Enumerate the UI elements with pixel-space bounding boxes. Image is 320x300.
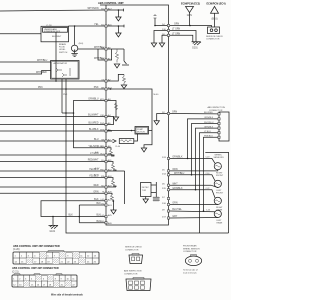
wheel sensors box: [205, 152, 228, 233]
svg-text:FRO: FRO: [100, 169, 104, 171]
wire ORN: [0, 191, 106, 193]
svg-text:male terminals: male terminals: [183, 271, 197, 274]
left rear sensor: [170, 209, 223, 224]
svg-text:FRONT/REAR: FRONT/REAR: [183, 245, 197, 248]
svg-text:BLU/WHT: BLU/WHT: [88, 115, 99, 117]
svg-text:(C-20): (C-20): [46, 25, 52, 27]
resistor box: [116, 134, 138, 148]
ABS control unit 26P connector legend: [13, 245, 60, 251]
svg-text:WHT/BLU: WHT/BLU: [37, 60, 48, 62]
svg-text:12: 12: [13, 285, 16, 287]
svg-text:ECM/PCM (EC3): ECM/PCM (EC3): [181, 3, 200, 6]
svg-text:(C-20): (C-20): [13, 249, 20, 251]
svg-text:GRN: GRN: [172, 203, 177, 205]
inspection bundle wire 3: [191, 122, 218, 176]
svg-text:C-18: C-18: [206, 157, 210, 159]
detector box: [141, 182, 157, 203]
wire WHT/RED to alternator: [0, 71, 51, 75]
inspection bundle wire 5: [200, 131, 218, 233]
svg-text:PNK: PNK: [94, 87, 99, 89]
svg-text:D9: D9: [162, 210, 166, 212]
svg-text:LT GRN: LT GRN: [172, 33, 181, 35]
wire RED/WHT: [0, 160, 106, 162]
svg-text:WHEEL: WHEEL: [215, 154, 223, 156]
wire WHT/BLU to alternator: [0, 60, 51, 62]
svg-text:MOTOR: MOTOR: [137, 132, 145, 134]
svg-text:GRN: GRN: [172, 112, 177, 114]
svg-text:SWITCH: SWITCH: [59, 52, 68, 54]
internal wire D2 to logic ground: [154, 114, 169, 125]
wire YEL/BLU 1: [0, 168, 106, 171]
internal wire A3 coil ground: [107, 101, 118, 122]
internal wire pin A17 to logic ground: [107, 9, 123, 21]
svg-text:A26: A26: [108, 222, 113, 225]
svg-text:D17: D17: [162, 217, 167, 219]
pump motor ground: [141, 131, 152, 153]
pin designator labels: [100, 8, 105, 223]
wire BLK with G101 ground branch: [41, 199, 106, 217]
svg-text:FRI: FRI: [101, 176, 104, 178]
svg-text:WHT/RED: WHT/RED: [36, 72, 47, 74]
svg-text:WHEEL SENSOR: WHEEL SENSOR: [183, 248, 200, 250]
svg-text:25: 25: [87, 262, 90, 264]
svg-text:PNK/BLU: PNK/BLU: [204, 136, 213, 138]
svg-text:3: 3: [25, 279, 27, 281]
svg-text:BLK: BLK: [69, 215, 74, 217]
wire BLK/RED inspection pin1: [170, 112, 218, 115]
svg-text:REAR: REAR: [217, 222, 223, 225]
svg-text:WHT/GRN: WHT/GRN: [88, 8, 99, 10]
svg-text:1: 1: [15, 256, 17, 258]
svg-text:26: 26: [94, 262, 97, 264]
svg-text:13: 13: [94, 256, 97, 258]
wire to fuse box: [0, 33, 41, 35]
svg-text:16: 16: [37, 285, 40, 287]
svg-text:CONNECTOR: CONNECTOR: [125, 249, 139, 251]
wire LT GRN to G201: [170, 29, 196, 42]
svg-text:8: 8: [55, 279, 57, 281]
left front sensor: [170, 173, 224, 194]
svg-text:BLU/RED: BLU/RED: [89, 123, 99, 125]
svg-text:WHT/BLU: WHT/BLU: [174, 173, 185, 175]
right rear sensor: [170, 188, 223, 211]
svg-text:18: 18: [41, 262, 44, 264]
ground G201: [192, 42, 202, 50]
svg-text:(C-21): (C-21): [12, 272, 19, 274]
svg-text:WHT/BLU: WHT/BLU: [204, 122, 214, 124]
svg-text:15: 15: [21, 262, 24, 264]
labels mid wires: [88, 115, 99, 142]
svg-text:BRAKE: BRAKE: [59, 43, 67, 46]
22P connector grid: [12, 274, 77, 287]
svg-text:GRN/BLK: GRN/BLK: [204, 126, 214, 128]
svg-text:BLU/YEL: BLU/YEL: [172, 209, 182, 211]
right edge pin labels: [162, 24, 167, 219]
internal wire D10 to logic ground: [151, 31, 168, 48]
svg-text:D7: D7: [162, 197, 166, 199]
svg-text:23: 23: [74, 262, 77, 264]
ABS inspection connector: [208, 106, 230, 141]
svg-text:ABS INSPECTION: ABS INSPECTION: [124, 270, 142, 273]
svg-text:CONNECTOR: CONNECTOR: [206, 39, 220, 41]
svg-text:1: 1: [13, 279, 15, 281]
right front sensor: [170, 157, 224, 178]
svg-text:Wire side of female terminals: Wire side of female terminals: [51, 294, 83, 297]
wire LT GRN/WHT: [0, 152, 106, 155]
ABS inspection connector legend icon: [124, 270, 151, 291]
svg-text:PNK: PNK: [38, 87, 43, 89]
ground G101: [49, 216, 59, 233]
svg-text:9: 9: [67, 256, 69, 258]
detector hatch ground: [153, 197, 160, 202]
svg-text:10: 10: [67, 279, 70, 281]
service check connector legend icon: [125, 247, 143, 264]
svg-text:GRN: GRN: [187, 15, 192, 17]
26P connector grid: [13, 251, 99, 264]
svg-text:D14: D14: [162, 173, 167, 175]
svg-text:RED/WHT: RED/WHT: [88, 160, 99, 162]
svg-text:11: 11: [72, 279, 75, 281]
alternator box: [51, 61, 79, 80]
svg-text:SERVICE CHECK: SERVICE CHECK: [125, 247, 143, 249]
wire BLU/WHT: [0, 116, 106, 118]
svg-text:CONNECTOR: CONNECTOR: [183, 251, 197, 253]
svg-text:ORN/BLK: ORN/BLK: [172, 157, 183, 159]
svg-text:6: 6: [43, 279, 45, 281]
svg-text:C-16: C-16: [206, 173, 210, 175]
internal wire A2 relay coil: [107, 74, 126, 88]
wire LT GRN lower to G201: [170, 33, 193, 41]
svg-text:DETEC: DETEC: [142, 187, 150, 189]
svg-text:GND: GND: [100, 221, 105, 223]
svg-text:20: 20: [61, 285, 64, 287]
svg-text:M-40: M-40: [154, 94, 160, 96]
wire GRN to ECM junction and service connector: [170, 24, 212, 27]
svg-text:ABS CONTROL UNIT 22P CONNECTOR: ABS CONTROL UNIT 22P CONNECTOR: [12, 267, 59, 270]
svg-text:15: 15: [31, 285, 34, 287]
internal wire A15 to logic ground: [107, 25, 124, 37]
svg-text:ORN: ORN: [93, 191, 98, 193]
wire step to pin GRN/BLU: [62, 99, 106, 114]
svg-text:D16: D16: [162, 203, 167, 205]
svg-text:BLK/WHT: BLK/WHT: [52, 36, 62, 38]
svg-text:PUMP: PUMP: [137, 129, 144, 131]
brake fluid level switch text: [59, 43, 68, 54]
wire BLU/RED: [0, 124, 106, 126]
svg-text:12: 12: [87, 256, 90, 258]
svg-text:22: 22: [72, 285, 75, 287]
svg-text:TOR: TOR: [142, 190, 147, 192]
internal wire D4 with stub: [154, 14, 169, 26]
alternator pin vertical long: [63, 79, 229, 233]
svg-text:7: 7: [54, 256, 56, 258]
svg-text:BLK: BLK: [94, 199, 99, 201]
wire YEL/BLU 2: [0, 175, 106, 178]
svg-text:YEL: YEL: [94, 24, 99, 26]
ABS control unit 22P connector legend: [12, 267, 59, 274]
svg-text:D6: D6: [162, 184, 166, 186]
wire A6 to pump motor: [107, 130, 152, 132]
svg-text:A25: A25: [108, 214, 113, 217]
svg-text:FRONT: FRONT: [216, 175, 224, 177]
fuse box (under-dash fuse/relay box): [41, 25, 69, 42]
svg-text:13: 13: [19, 285, 22, 287]
wire YEL from fuse to pin: [69, 24, 107, 45]
svg-text:GRN/BLU: GRN/BLU: [88, 99, 99, 101]
svg-text:RED: RED: [94, 185, 99, 187]
alternator pin vertical short: [61, 79, 63, 113]
left edge connector pins: [105, 9, 107, 224]
svg-text:GRN/BLK: GRN/BLK: [172, 188, 183, 190]
sensor wire connector tags: [206, 157, 210, 212]
inspection bundle wire 6: [203, 136, 218, 212]
svg-text:FLO: FLO: [101, 153, 105, 155]
indicator bulb / switch circle: [71, 43, 83, 52]
svg-text:ECM/PCM (EC4): ECM/PCM (EC4): [207, 3, 226, 6]
svg-text:WHT: WHT: [172, 183, 178, 185]
svg-text:6: 6: [47, 256, 49, 258]
svg-text:4: 4: [34, 256, 36, 258]
service check connector box: [206, 27, 224, 41]
svg-text:9: 9: [61, 279, 63, 281]
svg-text:LG2: LG2: [101, 215, 104, 217]
wire GRN/ORN: [0, 185, 106, 187]
front/rear wheel sensor connector legend icon: [183, 245, 202, 275]
svg-text:PNK: PNK: [63, 94, 68, 96]
svg-text:ALTERNATOR: ALTERNATOR: [54, 62, 68, 65]
wire A7 to resistor contact: [107, 139, 116, 143]
solenoid coils internal: [107, 148, 124, 214]
right edge connector pins: [167, 24, 169, 219]
ABS control unit box outline: [98, 1, 169, 225]
wire YEL/GRN from step: [73, 112, 106, 148]
wire BLK/WHT from fuse down: [52, 32, 62, 81]
wire PNK to pin: [0, 87, 106, 90]
ECM/PCM (EC4) connector triangle: [207, 3, 226, 28]
svg-text:BLK/RED: BLK/RED: [204, 112, 213, 114]
internal PNK wire to pump motor vertical: [107, 88, 159, 130]
wire WHT/BLU to pin (upper): [78, 47, 106, 49]
svg-text:21: 21: [61, 262, 64, 264]
inspection bundle wire 2: [187, 117, 218, 159]
wire WHT/GRN to pin A17: [0, 8, 106, 11]
svg-text:C-22: C-22: [206, 188, 210, 190]
inspection bundle wire 4: [195, 126, 218, 190]
svg-text:ORN/BLK: ORN/BLK: [204, 117, 214, 119]
svg-text:FRONT: FRONT: [216, 192, 224, 194]
svg-text:D13: D13: [162, 157, 167, 159]
left edge pin number labels: [108, 8, 113, 226]
svg-text:22: 22: [67, 262, 70, 264]
svg-text:CONNECTOR: CONNECTOR: [124, 273, 138, 275]
svg-text:2: 2: [19, 279, 21, 281]
svg-text:LG1: LG1: [101, 199, 104, 201]
svg-text:BLU: BLU: [94, 139, 99, 141]
svg-text:4: 4: [31, 279, 33, 281]
svg-text:IG2: IG2: [101, 24, 104, 26]
svg-text:PSW: PSW: [100, 123, 104, 125]
svg-text:18: 18: [49, 285, 52, 287]
svg-text:IG1: IG1: [101, 8, 104, 10]
svg-text:17: 17: [43, 285, 46, 287]
svg-text:FUSE/RELAY BOX: FUSE/RELAY BOX: [44, 30, 61, 33]
ground under switch: [71, 52, 77, 57]
svg-text:ABS CONTROL UNIT: ABS CONTROL UNIT: [98, 1, 124, 5]
svg-text:GRN: GRN: [174, 24, 179, 26]
svg-text:A13: A13: [108, 204, 113, 207]
svg-text:LT BLU: LT BLU: [204, 131, 211, 133]
svg-text:D5: D5: [162, 169, 166, 171]
internal stubs A4 A5: [107, 117, 113, 132]
svg-text:17: 17: [34, 262, 37, 264]
wire BLU/BLK: [0, 130, 106, 132]
svg-text:G201: G201: [192, 48, 198, 50]
svg-text:3: 3: [28, 256, 30, 258]
svg-text:C-23: C-23: [206, 209, 210, 211]
svg-text:11: 11: [80, 256, 83, 258]
svg-text:LT GRN: LT GRN: [172, 29, 181, 31]
wire BLK/YEL junction: [0, 80, 106, 82]
ECM/PCM (EC3) connector triangle: [181, 3, 200, 26]
svg-text:ORN: ORN: [172, 169, 177, 171]
svg-text:14: 14: [15, 262, 18, 264]
svg-text:(BLU): (BLU): [212, 19, 218, 21]
internal relay coil at pins A9/A1: [107, 49, 129, 68]
svg-text:D15: D15: [162, 188, 167, 190]
internal wire D8 to logic ground: [159, 35, 168, 47]
svg-text:G101: G101: [50, 231, 56, 233]
svg-text:ABS CONTROL UNIT 26P CONNECTOR: ABS CONTROL UNIT 26P CONNECTOR: [13, 245, 60, 248]
svg-text:2: 2: [21, 256, 23, 258]
wire BLU: [0, 140, 106, 142]
svg-text:BLU/BLK: BLU/BLK: [89, 129, 99, 131]
svg-text:(B-6): (B-6): [79, 43, 84, 45]
wire WHT/BLU to pin (lower): [94, 49, 106, 60]
inspection connector pins: [218, 113, 220, 139]
svg-text:19: 19: [47, 262, 50, 264]
svg-text:R-40: R-40: [116, 146, 121, 148]
pump motor box: [135, 127, 149, 135]
svg-text:Terminal side of: Terminal side of: [183, 269, 198, 272]
svg-text:ABS INSPECTION: ABS INSPECTION: [208, 106, 226, 109]
svg-text:SENSORS: SENSORS: [214, 157, 225, 159]
svg-text:GRY: GRY: [172, 216, 177, 218]
BLK bus to three pins: [79, 203, 107, 223]
